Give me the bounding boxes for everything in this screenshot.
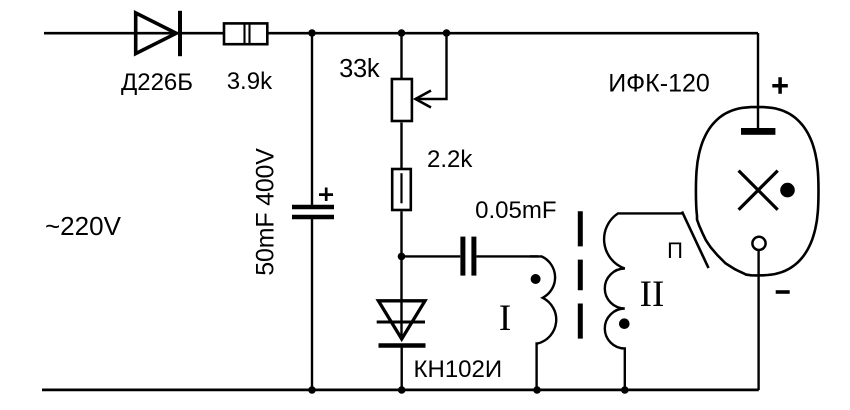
node D junction dot [398,253,406,261]
svg-text:50mF 400V: 50mF 400V [252,148,280,276]
node C junction dot [443,29,451,37]
svg-text:~220V: ~220V [45,211,122,241]
lamp VL1 IFK-120 bulb outline [696,107,819,275]
wire capacitor branch lower [311,219,313,390]
label plus [772,77,788,94]
wire R3 to dinistor [400,211,402,340]
svg-text:2.2k: 2.2k [427,146,473,173]
capacitor C2 right plate [471,237,476,276]
transformer T1 winding I polarity dot [531,274,541,284]
diode D226B cathode bar [178,11,182,56]
lamp VL1 trigger electrode [682,212,709,269]
svg-text:КН102И: КН102И [414,356,503,383]
transformer T1 core [578,211,583,338]
lamp VL1 anode bar [741,128,775,135]
capacitor C1 plus plate [292,205,334,209]
wire node D to C2 [402,255,461,257]
node F junction dot [398,386,406,394]
wire lamp cathode drop [757,250,759,390]
lamp VL1 cross mark [739,171,778,210]
wire lamp anode drop [757,33,759,128]
svg-text:33k: 33k [339,55,380,83]
svg-text:0.05mF: 0.05mF [475,197,556,224]
dinistor VD2 KN102I triangle [378,301,425,339]
node B junction dot [398,29,406,37]
node G junction dot [533,386,541,394]
svg-text:П: П [667,238,683,263]
dinistor VD2 cathode bar [379,343,426,348]
transformer T1 winding II polarity dot [619,318,630,329]
lamp VL1 gas dot [780,183,795,198]
capacitor C1 polarity plus [319,188,333,202]
label minus [776,290,790,294]
resistor R3 2.2k rating mark [400,173,402,203]
diode D226B triangle [136,13,177,54]
potentiometer R2 wiper wire [417,33,447,99]
resistor R1 3.9k rating marks [245,24,250,45]
svg-text:Д226Б: Д226Б [121,69,193,96]
potentiometer R2 wiper arrowhead [416,91,432,108]
wire C2 to winding I [476,255,538,257]
lamp VL1 cathode terminal circle [752,237,765,250]
wire dinistor to bottom rail [401,346,403,391]
wire bottom rail [42,388,759,391]
wire pot to R3 [400,123,402,169]
svg-text:II: II [640,274,665,315]
svg-text:3.9k: 3.9k [227,68,273,95]
transformer T1 winding I [530,256,556,390]
svg-text:ИФК-120: ИФК-120 [608,70,710,98]
dinistor VD2 gate crossline [377,321,425,324]
potentiometer R2 33k body [392,79,412,121]
capacitor C1 minus plate [292,215,334,220]
wire pot branch upper [400,33,402,78]
resistor R3 2.2k body [392,169,411,210]
wire top rail [44,32,758,35]
node A junction dot [308,29,316,37]
capacitor C2 left plate [460,237,465,276]
node E junction dot [308,386,316,394]
resistor R1 3.9k body [224,23,267,44]
node H junction dot [621,386,629,394]
transformer T1 winding II [604,213,682,390]
wire capacitor branch upper [311,33,313,205]
svg-text:I: I [499,298,511,339]
